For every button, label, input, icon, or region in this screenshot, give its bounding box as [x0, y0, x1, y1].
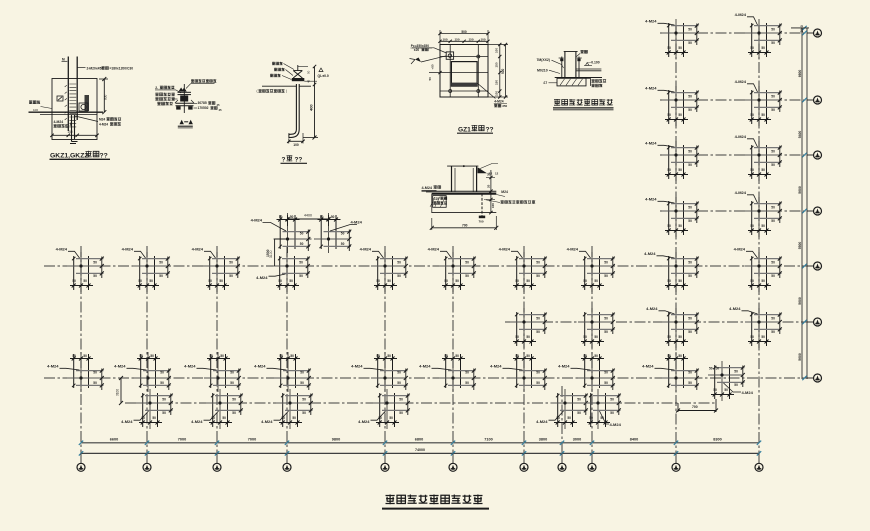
svg-text:4-M24: 4-M24 [184, 364, 196, 369]
column base anchor symbol I4 [645, 197, 699, 238]
dimension 700 (bottom right) [676, 399, 718, 413]
grid line (vertical stub axis x=562) [561, 386, 563, 463]
svg-text:500: 500 [461, 30, 467, 34]
grid line (horizontal axis y=211) [660, 210, 807, 212]
column base anchor symbol c150r8 [121, 389, 173, 429]
dimension tick line2 [674, 451, 678, 455]
column base anchor symbol I2 [645, 86, 699, 127]
svg-text:4-M24: 4-M24 [192, 247, 204, 252]
svg-text:M0210: M0210 [537, 68, 548, 72]
svg-text:GKZ1,GKZ2: GKZ1,GKZ2 [50, 153, 88, 160]
svg-text:6800: 6800 [415, 437, 423, 441]
grid line (vertical axis x=759) [758, 25, 760, 463]
dimension tick [383, 441, 387, 445]
column base anchor symbol c218r7 [184, 352, 241, 392]
svg-text:4-M24: 4-M24 [567, 247, 579, 252]
bottom grid bubble [143, 453, 151, 471]
svg-text:100: 100 [495, 48, 499, 53]
svg-text:4-M24: 4-M24 [645, 141, 657, 146]
svg-text:100: 100 [491, 203, 495, 208]
svg-text:4-M24: 4-M24 [47, 364, 59, 369]
column base anchor symbol D5 [256, 252, 310, 292]
bottom grid bubble [558, 453, 566, 471]
dimension tick line2 [590, 451, 594, 455]
svg-text:50: 50 [428, 77, 432, 81]
bottom dimension line 2 (overall) [81, 452, 759, 454]
dimension tick [522, 441, 526, 445]
column base anchor symbol c387r8 [358, 389, 410, 429]
dimension tick line2 [383, 451, 387, 455]
grid line (horizontal axis y=322) [505, 321, 807, 323]
svg-text:4-M24: 4-M24 [494, 100, 504, 104]
svg-text:4-M24: 4-M24 [735, 134, 747, 139]
grid line (horizontal axis y=403) [125, 402, 716, 404]
column base anchor symbol c453r5 [428, 247, 476, 293]
svg-text:30785: 30785 [198, 101, 207, 105]
dimension tick line2 [451, 451, 455, 455]
svg-text:M24: M24 [501, 190, 508, 194]
svg-text:150: 150 [454, 38, 459, 42]
right grid bubble row 3 [802, 151, 821, 159]
svg-text:74000: 74000 [415, 448, 425, 452]
svg-text:6600: 6600 [798, 70, 802, 78]
svg-text:+50: +50 [431, 64, 435, 69]
right grid bubble row 1 [802, 29, 821, 37]
column base anchor symbol J3 [735, 134, 782, 181]
svg-text:6600: 6600 [110, 437, 118, 441]
detail column base section [422, 164, 536, 231]
column base anchor symbol I3 [645, 141, 699, 182]
column base anchor symbol c453r7 [419, 352, 476, 392]
bottom grid bubble [449, 453, 457, 471]
svg-text:50: 50 [709, 367, 713, 371]
svg-text:??: ?? [100, 153, 108, 160]
column base anchor symbol c217r5 [192, 247, 240, 293]
dimension tick line2 [560, 451, 564, 455]
svg-text:7M(XX2): 7M(XX2) [537, 58, 550, 62]
svg-text:5500: 5500 [798, 242, 802, 250]
column base anchor symbol c81r7 [47, 352, 104, 392]
right grid bubble row 2 [802, 96, 821, 104]
svg-text:150: 150 [495, 80, 499, 85]
svg-text:4-M24: 4-M24 [99, 122, 108, 126]
right grid bubble row 7 [802, 374, 821, 382]
right grid bubble row 4 [802, 207, 821, 215]
svg-text:2800: 2800 [800, 25, 804, 32]
dimension tick [757, 441, 761, 445]
bottom grid bubble [755, 453, 763, 471]
svg-text:5400: 5400 [798, 131, 802, 139]
bottom dimension line 1 [81, 442, 759, 444]
svg-text:5600: 5600 [798, 297, 802, 305]
grid line (vertical axis x=453) [452, 246, 454, 463]
svg-text:4-M24: 4-M24 [558, 364, 570, 369]
bottom grid bubble [77, 453, 85, 471]
column base anchor symbol c592r7 [558, 352, 615, 392]
svg-text:—0.100: —0.100 [588, 61, 600, 65]
svg-text:4-M24: 4-M24 [122, 247, 134, 252]
svg-text:??: ?? [295, 157, 303, 164]
column base anchor symbol c524r5 [499, 247, 547, 293]
dimension tick [674, 441, 678, 445]
svg-text:GZ1: GZ1 [458, 126, 471, 133]
column base anchor symbol c759r5 [734, 247, 782, 293]
svg-text:12: 12 [489, 171, 493, 175]
grid line (horizontal axis y=266) [44, 265, 807, 267]
column base anchor symbol c81r5 [56, 247, 104, 293]
svg-text:150: 150 [468, 38, 473, 42]
grid line (horizontal axis y=100) [660, 99, 807, 101]
grid line (horizontal axis y=378) [44, 377, 807, 379]
bottom grid bubble [381, 453, 389, 471]
detail: twin column mini plan [251, 213, 363, 266]
svg-text:4-M24: 4-M24 [645, 86, 657, 91]
svg-text:500: 500 [501, 68, 505, 74]
column base anchor symbol c524r6 [510, 308, 547, 348]
svg-text:400: 400 [309, 104, 314, 111]
right grid bubble row 6 [802, 318, 821, 326]
column base anchor symbol c676r6 [646, 306, 699, 348]
svg-text:4-M24: 4-M24 [261, 419, 273, 424]
column base anchor symbol J2 [735, 79, 782, 126]
svg-text:1500: 1500 [266, 249, 270, 257]
svg-text:50: 50 [716, 367, 720, 371]
svg-text:4-M24: 4-M24 [735, 12, 747, 17]
column base anchor symbol J1 [735, 12, 782, 59]
column base anchor symbol (offset pier) r7x722 [708, 361, 754, 401]
column base anchor symbol c524r7 [490, 352, 547, 392]
column base anchor symbol c288r7 [254, 352, 311, 392]
detail anchor bolt elevation [257, 62, 329, 164]
column base anchor symbol c592r6 [578, 308, 615, 348]
svg-text:4-M24: 4-M24 [490, 364, 502, 369]
svg-text:20: 20 [487, 184, 491, 188]
bottom grid bubble [672, 453, 680, 471]
grid line (vertical axis x=217) [216, 246, 218, 463]
svg-text:4-M24: 4-M24 [422, 186, 433, 190]
svg-text:4-M24: 4-M24 [734, 247, 746, 252]
right boundary dimension lines [791, 25, 809, 379]
dimension tick [145, 441, 149, 445]
svg-text:100: 100 [442, 38, 447, 42]
column base anchor symbol c676r5 [644, 251, 699, 292]
svg-text:3800: 3800 [539, 437, 547, 441]
dimension tick line2 [522, 451, 526, 455]
svg-text:4-M24: 4-M24 [742, 390, 754, 395]
svg-text:4-M24: 4-M24 [360, 247, 372, 252]
svg-text:100: 100 [33, 108, 38, 112]
column base anchor symbol c148r7 [114, 352, 171, 392]
svg-text:3100: 3100 [116, 389, 120, 396]
column base anchor symbol c385r5 [360, 247, 408, 293]
svg-text:4-M24: 4-M24 [499, 247, 511, 252]
detail GKZ1,GKZ2 column base [29, 57, 134, 160]
detail square column encasement [537, 50, 614, 110]
bottom grid bubble [520, 453, 528, 471]
svg-text:£7: £7 [544, 81, 548, 85]
bottom grid bubble [213, 453, 221, 471]
svg-text:8400: 8400 [630, 437, 638, 441]
grid line (vertical axis x=287) [286, 246, 288, 463]
column base anchor symbol c147r5 [122, 247, 170, 293]
svg-text:4-M24: 4-M24 [645, 19, 657, 24]
dimension tick line2 [215, 451, 219, 455]
svg-text:45: 45 [219, 108, 223, 112]
svg-text:2-: 2- [155, 86, 158, 90]
svg-text:x20: x20 [414, 48, 420, 52]
svg-text:45: 45 [307, 79, 311, 83]
svg-text:4-M24: 4-M24 [735, 79, 747, 84]
dimension tick [560, 441, 564, 445]
column base anchor symbol J4 [735, 190, 782, 237]
svg-text:8300: 8300 [713, 437, 721, 441]
dimension tick line2 [285, 451, 289, 455]
svg-text:170502: 170502 [198, 106, 209, 110]
grid line (vertical axis x=385) [384, 246, 386, 463]
right grid bubble row 5 [802, 262, 821, 270]
svg-text:7000: 7000 [178, 437, 186, 441]
svg-text:3000: 3000 [573, 437, 581, 441]
svg-text:4-M24: 4-M24 [121, 419, 133, 424]
svg-text:?: ? [282, 157, 286, 164]
svg-text:5600: 5600 [798, 186, 802, 194]
column base anchor symbol c598r8 [584, 389, 622, 429]
grid line (vertical axis x=524) [523, 246, 525, 463]
column base anchor symbol c220r8 [191, 389, 243, 429]
svg-text:4-M24: 4-M24 [536, 419, 548, 424]
svg-text:100: 100 [480, 38, 485, 42]
grid line (vertical axis x=676) [675, 25, 677, 463]
dimension tick line2 [79, 451, 83, 455]
column base anchor symbol c290r8 [261, 389, 313, 429]
svg-text:4-M24: 4-M24 [644, 251, 656, 256]
svg-text:4-M24: 4-M24 [351, 220, 363, 225]
svg-text:4-M24: 4-M24 [54, 120, 64, 124]
bottom grid bubble [283, 453, 291, 471]
svg-text:5600: 5600 [798, 353, 802, 361]
detail GZ1 column base plan [410, 30, 509, 134]
svg-text:4-M24: 4-M24 [251, 218, 263, 223]
svg-text:150: 150 [495, 62, 499, 67]
svg-text:12: 12 [495, 171, 499, 175]
svg-text:4-M24: 4-M24 [419, 364, 431, 369]
svg-text:4-M24: 4-M24 [254, 364, 266, 369]
svg-text:7000: 7000 [248, 437, 256, 441]
column base anchor symbol c759r6 [729, 306, 782, 348]
svg-text:4-M24: 4-M24 [729, 306, 741, 311]
dimension tick line2 [145, 451, 149, 455]
drawing title [382, 495, 489, 509]
column base anchor symbol c676r7 [642, 352, 699, 392]
svg-text:4-M24: 4-M24 [358, 419, 370, 424]
svg-text:7100: 7100 [484, 437, 492, 441]
svg-text:4-M24: 4-M24 [642, 364, 654, 369]
svg-text:4-M24: 4-M24 [256, 275, 268, 280]
svg-text:4-M24: 4-M24 [191, 419, 203, 424]
grid line (horizontal axis y=155) [660, 154, 807, 156]
column base anchor symbol c592r5 [567, 247, 615, 293]
column base anchor symbol c385r7 [351, 352, 408, 392]
svg-text:100: 100 [293, 143, 299, 147]
svg-text:4-M24: 4-M24 [428, 247, 440, 252]
svg-text:??: ?? [486, 126, 494, 133]
svg-text:700: 700 [692, 405, 698, 409]
dimension tick [590, 441, 594, 445]
svg-text:M: M [62, 58, 65, 62]
grid line (horizontal axis y=33) [660, 32, 807, 34]
svg-text:QL±0.0: QL±0.0 [318, 74, 329, 78]
svg-text:100: 100 [495, 91, 499, 96]
svg-text:700: 700 [462, 223, 468, 227]
detail A-A section [155, 79, 222, 128]
dimension tick [451, 441, 455, 445]
svg-text:9800: 9800 [332, 437, 340, 441]
svg-text:50: 50 [307, 70, 311, 74]
svg-text:=180x1200/C30: =180x1200/C30 [110, 67, 134, 71]
svg-text:4-M24: 4-M24 [735, 190, 747, 195]
svg-text:M24: M24 [99, 118, 105, 122]
dimension tick [79, 441, 83, 445]
dimension 3100 between rows (col B) [116, 376, 124, 405]
svg-text:350: 350 [502, 104, 507, 108]
svg-text:4-M24: 4-M24 [610, 422, 622, 427]
grid line (vertical axis x=147) [146, 246, 148, 463]
bottom grid bubble [588, 453, 596, 471]
svg-text:2-M20x450: 2-M20x450 [87, 67, 104, 71]
svg-text:700: 700 [479, 219, 484, 223]
dimension tick line2 [757, 451, 761, 455]
svg-text:4-M24: 4-M24 [646, 306, 658, 311]
svg-text:150: 150 [67, 130, 73, 134]
svg-text:): ) [286, 89, 287, 93]
grid line (vertical axis x=592) [591, 246, 593, 463]
dimension tick [215, 441, 219, 445]
svg-text:4-M24: 4-M24 [56, 247, 68, 252]
svg-text:800: 800 [104, 94, 108, 100]
svg-text:4400: 4400 [304, 214, 312, 218]
dimension tick [285, 441, 289, 445]
column base anchor symbol I1 [645, 19, 699, 60]
svg-text:4-M24: 4-M24 [114, 364, 126, 369]
svg-text:4-M24: 4-M24 [351, 364, 363, 369]
grid line (vertical axis x=81) [80, 246, 82, 463]
column base anchor symbol c565r8 [536, 389, 588, 429]
svg-text:4-M24: 4-M24 [645, 197, 657, 202]
